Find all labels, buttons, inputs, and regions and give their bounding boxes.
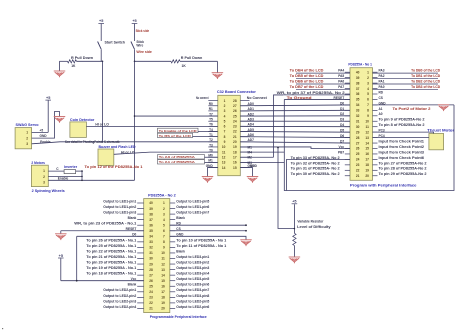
IC U1 PD8255A No 1 body: [350, 68, 373, 181]
svg-text:20: 20: [161, 307, 165, 311]
wire D0 vertical to Vcc net: [76, 236, 78, 281]
wire inverter output node: [76, 170, 83, 172]
svg-text:M1: M1: [248, 145, 253, 149]
svg-text:Wire side: Wire side: [136, 50, 152, 54]
svg-text:4: 4: [163, 218, 165, 222]
svg-text:5: 5: [224, 119, 226, 123]
svg-text:17: 17: [161, 290, 165, 294]
svg-text:Output to LED2-pin1: Output to LED2-pin1: [103, 288, 136, 292]
svg-text:To DB2 of the LCD: To DB2 of the LCD: [411, 80, 441, 84]
svg-text:Inverter: Inverter: [64, 165, 78, 169]
svg-text:To pin 19 of PD8255A - No.1: To pin 19 of PD8255A - No.1: [86, 266, 136, 270]
svg-text:GND: GND: [40, 134, 48, 138]
svg-text:13: 13: [161, 268, 165, 272]
svg-text:2: 2: [163, 207, 165, 211]
svg-text:20: 20: [233, 140, 237, 144]
labels C32 right pin names: [247, 96, 268, 168]
svg-text:38: 38: [356, 81, 360, 85]
svg-text:2: 2: [224, 104, 226, 108]
svg-text:T2: T2: [209, 138, 213, 142]
svg-text:To DB6 of the LCD: To DB6 of the LCD: [290, 80, 325, 84]
svg-text:Blank: Blank: [128, 216, 137, 220]
svg-text:21: 21: [356, 174, 360, 178]
power +5 (U2 Vcc): [58, 254, 64, 281]
ground (potentiometer): [289, 257, 301, 263]
wire +5 rail connector M1 row to U1 Vcc: [240, 147, 350, 149]
labels U2 left pin names: [74, 199, 136, 308]
power +5 (potentiometer): [292, 200, 298, 234]
net label To Enable of the LCD: [158, 128, 218, 133]
svg-text:3: 3: [224, 109, 226, 113]
pin stubs U1 right: [373, 72, 378, 176]
wire U2 CS stub: [170, 230, 247, 232]
svg-text:A0: A0: [379, 112, 383, 116]
wire connector M4 row to reset loop: [240, 151, 284, 153]
svg-text:1K: 1K: [71, 64, 76, 68]
labels U1 left red refs LCD data: [290, 69, 325, 89]
svg-text:Output to LED3-pin3: Output to LED3-pin3: [176, 266, 209, 270]
motor M1 thrust motor body: [429, 134, 444, 150]
svg-text:20: 20: [365, 174, 369, 178]
svg-text:40: 40: [149, 201, 153, 205]
resistor R1 R Pull Down 1K (left): [60, 60, 103, 63]
svg-text:To pin 21 of PD8255A - No.1: To pin 21 of PD8255A - No.1: [86, 255, 136, 259]
svg-text:23: 23: [356, 163, 360, 167]
svg-text:10: 10: [365, 119, 369, 123]
svg-text:Level of Difficulty: Level of Difficulty: [297, 225, 331, 229]
pin stubs C32 right: [240, 101, 249, 168]
svg-text:Coin Detector: Coin Detector: [70, 118, 95, 122]
svg-text:1: 1: [26, 131, 28, 135]
svg-text:T4: T4: [209, 128, 213, 132]
ground (U2 GND): [240, 240, 252, 246]
labels U1 right input check points: [379, 139, 425, 159]
svg-text:16: 16: [365, 152, 369, 156]
svg-text:To A1 of PD8255A: To A1 of PD8255A: [159, 160, 196, 164]
wire servo pin2 to ground loop: [32, 112, 60, 139]
wire +5 to U2 Vcc: [61, 280, 144, 282]
ground (C32 right): [247, 177, 259, 183]
svg-text:Output to LED1-pin5: Output to LED1-pin5: [176, 199, 209, 203]
connector J2 SWAG Servo body: [15, 128, 32, 149]
ground (U1 GND): [438, 105, 450, 112]
power +5 (servo): [45, 96, 51, 132]
svg-text:12: 12: [161, 262, 165, 266]
svg-text:To DB0 of the LCD: To DB0 of the LCD: [411, 69, 441, 73]
svg-text:To pin 11 of PD8255A - No 1: To pin 11 of PD8255A - No 1: [176, 244, 226, 248]
svg-text:19: 19: [161, 301, 165, 305]
svg-text:To pin 10 of PD8255A - No 1: To pin 10 of PD8255A - No 1: [176, 238, 226, 242]
svg-text:Start Switch: Start Switch: [105, 40, 126, 44]
ground (left pulldown): [54, 61, 66, 77]
svg-text:Programmable Peripheral Interf: Programmable Peripheral Interface: [150, 315, 207, 319]
svg-text:PA2: PA2: [379, 74, 385, 78]
svg-text:7: 7: [224, 130, 226, 134]
svg-text:22: 22: [233, 130, 237, 134]
wire U1 row17 to loop bottom: [287, 159, 350, 190]
svg-text:Blank: Blank: [176, 216, 185, 220]
svg-text:To pin 28 of PD8255A-No 2: To pin 28 of PD8255A-No 2: [379, 167, 427, 171]
svg-text:R1: R1: [209, 107, 213, 111]
net label To RS of the LCD: [158, 133, 218, 138]
svg-text:6: 6: [224, 125, 226, 129]
wire WR vertical to connector M2 row: [274, 95, 284, 157]
svg-text:2: 2: [26, 136, 28, 140]
net label To A0 of PD8255A: [158, 155, 218, 160]
svg-text:6: 6: [367, 98, 369, 102]
svg-text:To pin 18 of PD8255A - No.1: To pin 18 of PD8255A - No.1: [86, 272, 136, 276]
wire coin detector to connector pin6: [86, 125, 217, 127]
svg-text:To pin 33 of PD8255A- No 2: To pin 33 of PD8255A- No 2: [291, 156, 340, 160]
svg-text:23: 23: [233, 125, 237, 129]
svg-text:WR, to pin 23 of PD8255A - No.: WR, to pin 23 of PD8255A - No.1: [74, 222, 136, 226]
svg-text:Output to LED3-pin1: Output to LED3-pin1: [176, 255, 209, 259]
svg-text:T0: T0: [209, 148, 213, 152]
svg-text:R Pull Down: R Pull Down: [181, 56, 203, 60]
switch S2 stick/wire: [131, 39, 135, 61]
svg-text:To pin 30 of PD8255A- No 2: To pin 30 of PD8255A- No 2: [291, 172, 340, 176]
svg-text:Buzzer and Flash LED: Buzzer and Flash LED: [99, 145, 137, 149]
svg-text:25: 25: [233, 114, 237, 118]
wire U2 RESET to ground: [61, 230, 144, 232]
svg-text:R Pull Down: R Pull Down: [71, 56, 93, 60]
svg-text:Output to LED3-pin5: Output to LED3-pin5: [176, 277, 209, 281]
node junction switch2/pulldown: [134, 61, 136, 63]
svg-text:22: 22: [356, 169, 360, 173]
labels U1 left pin names PA4-PA7, D0-D7, Vcc, PB7: [334, 69, 345, 155]
svg-text:M0: M0: [208, 154, 213, 158]
svg-text:39: 39: [356, 76, 360, 80]
ground (right pulldown): [212, 61, 224, 79]
labels U1 right refs to PD8255A No 2 pins 8,9: [379, 118, 425, 127]
svg-text:To RS of the LCD: To RS of the LCD: [159, 134, 192, 138]
svg-text:27: 27: [356, 141, 360, 145]
svg-text:To pin 22 of PD8255A - No.1: To pin 22 of PD8255A - No.1: [86, 249, 136, 253]
wire C32 pin15 to ground: [240, 168, 252, 177]
svg-text:Blank: Blank: [176, 249, 185, 253]
pin numbers U1 right 1-20: [365, 70, 369, 178]
wire servo enable net to connector pin9: [32, 142, 218, 144]
svg-text:21: 21: [149, 307, 153, 311]
svg-text:7: 7: [163, 235, 165, 239]
svg-text:12: 12: [365, 130, 369, 134]
svg-text:35: 35: [149, 229, 153, 233]
IC U2 PD8255A No 2 body: [144, 199, 170, 313]
pin numbers C32 right 28-15: [233, 99, 237, 170]
svg-text:PA7: PA7: [338, 85, 344, 89]
wire switch2 vertical to motor enable net: [134, 61, 136, 180]
labels U1 right refs to PD8255A No 2 pins 27-29: [379, 161, 427, 176]
svg-text:Output to LED3-pin6: Output to LED3-pin6: [176, 283, 209, 287]
svg-text:25: 25: [149, 284, 153, 288]
label WR to pin 37 of PD8255A-No 2: [274, 91, 350, 95]
wire U2 GND to ground: [170, 236, 246, 240]
svg-text:To pin 26 of PD8255A - No.1: To pin 26 of PD8255A - No.1: [86, 238, 136, 242]
svg-text:18: 18: [365, 163, 369, 167]
svg-text:8: 8: [367, 109, 369, 113]
svg-text:4: 4: [367, 87, 369, 91]
svg-text:To pin 27 of PD8255A-No 2: To pin 27 of PD8255A-No 2: [379, 161, 427, 165]
wire C32 pin14 to ground: [208, 168, 218, 177]
labels U1 left red refs to PD8255A No 2: [291, 156, 340, 176]
svg-text:19: 19: [233, 145, 237, 149]
wire U2 RD stub: [170, 224, 247, 226]
pin numbers servo 1,2,3: [26, 131, 28, 146]
svg-text:To DB3 of the LCD: To DB3 of the LCD: [411, 85, 441, 89]
ground (servo pin2): [54, 117, 66, 123]
svg-text:33: 33: [356, 109, 360, 113]
svg-text:22: 22: [149, 301, 153, 305]
switch S1 Start Switch: [98, 39, 102, 61]
svg-text:Variable Resistor: Variable Resistor: [297, 220, 324, 224]
pin stubs C32 left: [208, 101, 218, 168]
labels C32 left pin names: [196, 96, 213, 168]
svg-text:To pin 32 of PD8255A- No 2: To pin 32 of PD8255A- No 2: [291, 161, 340, 165]
svg-text:10: 10: [222, 145, 226, 149]
svg-text:3: 3: [367, 81, 369, 85]
svg-text:14: 14: [222, 166, 226, 170]
svg-text:18: 18: [161, 296, 165, 300]
labels U1 right red refs LCD data low: [411, 69, 441, 89]
svg-text:16: 16: [161, 284, 165, 288]
node Vcc feed junction: [294, 228, 296, 230]
svg-text:30: 30: [356, 125, 360, 129]
svg-text:6: 6: [163, 229, 165, 233]
svg-text:+5: +5: [99, 19, 103, 23]
wire connector M3 row to reset loop: [240, 161, 284, 163]
svg-text:8: 8: [224, 135, 226, 139]
svg-text:36: 36: [149, 223, 153, 227]
label Variable Resistor / Level of Difficulty: [297, 220, 331, 230]
svg-text:11: 11: [161, 257, 165, 261]
svg-text:PA6: PA6: [338, 80, 344, 84]
wire motor pin2 jog: [48, 176, 82, 178]
svg-text:32: 32: [149, 246, 153, 250]
svg-text:1K: 1K: [182, 64, 187, 68]
svg-text:Output to LED3-pin8: Output to LED3-pin8: [176, 294, 209, 298]
svg-text:To DB7 of the LCD: To DB7 of the LCD: [290, 85, 325, 89]
svg-text:PA0: PA0: [379, 85, 385, 89]
svg-text:HI or LO: HI or LO: [95, 123, 109, 127]
svg-text:8: 8: [163, 240, 165, 244]
svg-text:PA3: PA3: [379, 69, 385, 73]
svg-text:3: 3: [163, 212, 165, 216]
svg-text:To Port2 of Motor 2: To Port2 of Motor 2: [393, 107, 431, 111]
svg-text:CS: CS: [379, 96, 383, 100]
node junction switch1/pulldown: [102, 61, 104, 63]
svg-text:2: 2: [367, 76, 369, 80]
svg-text:33: 33: [149, 240, 153, 244]
svg-text:18: 18: [233, 150, 237, 154]
svg-text:WR, to pin 37 of PD8255A- No 2: WR, to pin 37 of PD8255A- No 2: [277, 91, 345, 95]
svg-text:13: 13: [222, 161, 226, 165]
wire motor pin1 to inverter: [48, 170, 64, 172]
svg-text:C32 Board Connector: C32 Board Connector: [217, 90, 257, 94]
svg-text:To Enable of the LCD: To Enable of the LCD: [159, 129, 198, 133]
svg-text:Output to LED2-pin3: Output to LED2-pin3: [103, 299, 136, 303]
svg-text:29: 29: [149, 262, 153, 266]
svg-text:Input from Check Point3: Input from Check Point3: [379, 150, 425, 154]
svg-text:T5: T5: [209, 118, 213, 122]
svg-text:15: 15: [365, 147, 369, 151]
svg-text:5: 5: [367, 92, 369, 96]
svg-text:Input from Check Point1: Input from Check Point1: [379, 139, 425, 143]
svg-text:To pin 29 of PD8255A-No 2: To pin 29 of PD8255A-No 2: [379, 172, 427, 176]
svg-text:1: 1: [367, 70, 369, 74]
svg-text:35: 35: [356, 98, 360, 102]
wire U2 D0 tie: [77, 235, 144, 237]
svg-text:9: 9: [224, 140, 226, 144]
labels U1 right pin names: [379, 69, 387, 138]
wire switch2 branch to connector pin4: [134, 115, 218, 117]
pin numbers U2 right 1-20: [161, 201, 165, 310]
wire potentiometer to ground: [293, 246, 295, 258]
svg-text:29: 29: [356, 130, 360, 134]
pin stubs U1 left: [345, 72, 350, 176]
pin numbers motors 1,2,3: [43, 169, 45, 185]
resistor R2 R Pull Down 1K (right): [135, 60, 218, 63]
svg-text:Output to LED1-pin7: Output to LED1-pin7: [176, 211, 209, 215]
svg-text:Blank: Blank: [128, 283, 137, 287]
sensor coin detector body: [70, 122, 87, 137]
svg-text:To DB5 of the LCD: To DB5 of the LCD: [290, 74, 325, 78]
wire RESET ground loop rectangle: [284, 99, 454, 190]
svg-text:38: 38: [149, 212, 153, 216]
svg-text:To pin 8 of PD8255A-No 2: To pin 8 of PD8255A-No 2: [379, 123, 425, 127]
svg-text:3: 3: [26, 142, 28, 146]
svg-text:31: 31: [149, 251, 153, 255]
svg-text:1: 1: [43, 169, 45, 173]
svg-text:28: 28: [149, 268, 153, 272]
pin numbers U1 left 40-21: [356, 70, 360, 178]
svg-text:24: 24: [356, 158, 360, 162]
svg-text:28: 28: [233, 99, 237, 103]
svg-text:Program with Peripheral Interf: Program with Peripheral Interface: [350, 183, 417, 188]
svg-text:To pin 20 of PD8255A - No.1: To pin 20 of PD8255A - No.1: [86, 260, 136, 264]
svg-text:Output to LED2-pin6: Output to LED2-pin6: [176, 305, 209, 309]
svg-text:See detail in PivotingPoints S: See detail in PivotingPoints S-chem.stk: [65, 140, 120, 144]
svg-text:11: 11: [222, 150, 226, 154]
svg-text:14: 14: [161, 273, 165, 277]
power +5 (start switch): [98, 19, 104, 39]
inverter U3 body: [64, 170, 76, 174]
svg-text:2: 2: [43, 175, 45, 179]
wire +5 rail down to potentiometer: [277, 147, 294, 229]
corner mark: [2, 328, 3, 329]
svg-text:19: 19: [365, 169, 369, 173]
svg-text:Output to LED2-pin4: Output to LED2-pin4: [103, 305, 136, 309]
svg-text:PD8255A - No 1: PD8255A - No 1: [348, 62, 372, 66]
resistor R3 variable level of difficulty: [293, 233, 296, 245]
svg-text:Output to LED1-pin6: Output to LED1-pin6: [176, 205, 209, 209]
svg-text:11: 11: [366, 125, 370, 129]
svg-text:R0: R0: [209, 102, 213, 106]
wire U1 RESET row to ground loop: [284, 98, 350, 100]
svg-text:PD8255A - No 2: PD8255A - No 2: [148, 194, 176, 198]
svg-text:Wire: Wire: [136, 44, 143, 48]
svg-text:39: 39: [149, 207, 153, 211]
svg-text:Output to LED2-pin2: Output to LED2-pin2: [103, 294, 136, 298]
svg-text:To DB1 of the LCD: To DB1 of the LCD: [411, 74, 441, 78]
svg-text:Stick side: Stick side: [136, 29, 150, 33]
svg-text:To pin 25 of PD8255A - No.1: To pin 25 of PD8255A - No.1: [86, 244, 136, 248]
svg-text:T6: T6: [209, 123, 213, 127]
pin numbers C32 left 1-14: [222, 99, 226, 170]
svg-text:To pin 31 of PD8255A- No 2: To pin 31 of PD8255A- No 2: [291, 167, 340, 171]
svg-text:4: 4: [224, 114, 226, 118]
svg-text:Output to LED3-pin7: Output to LED3-pin7: [176, 288, 209, 292]
wire connector M2 row: [240, 156, 273, 158]
wire buzzer to connector pin11: [114, 152, 218, 154]
svg-text:13: 13: [365, 136, 369, 140]
svg-text:14: 14: [365, 141, 369, 145]
connector J3 2 Motors body: [31, 165, 48, 186]
svg-text:PA4: PA4: [338, 69, 344, 73]
svg-text:Output to LED3-pin4: Output to LED3-pin4: [176, 272, 209, 276]
ground (C32 left): [202, 177, 214, 183]
svg-text:1: 1: [224, 99, 226, 103]
svg-text:26: 26: [233, 109, 237, 113]
svg-text:32: 32: [356, 114, 360, 118]
svg-text:17: 17: [365, 158, 369, 162]
connector J1 C32 body: [218, 95, 241, 175]
svg-text:3: 3: [43, 181, 45, 185]
buzzer and flash LED body: [98, 149, 114, 166]
svg-text:RD: RD: [379, 90, 384, 94]
svg-text:25: 25: [356, 152, 360, 156]
svg-text:9: 9: [367, 114, 369, 118]
svg-text:+5: +5: [132, 19, 136, 23]
svg-text:To pin 9 of PD8255A-No 2: To pin 9 of PD8255A-No 2: [379, 118, 425, 122]
wire PC3 to thrust motor: [373, 132, 434, 133]
svg-text:17: 17: [233, 155, 237, 159]
svg-text:PB7: PB7: [338, 150, 344, 154]
svg-text:M1: M1: [208, 159, 213, 163]
labels U2 right pin names: [176, 199, 226, 308]
svg-text:24: 24: [233, 119, 237, 123]
svg-text:10: 10: [161, 251, 165, 255]
svg-text:To DB4 of the LCD: To DB4 of the LCD: [290, 69, 325, 73]
svg-text:1: 1: [163, 201, 165, 205]
svg-text:24: 24: [149, 290, 153, 294]
pin stubs U2 right: [170, 203, 175, 308]
svg-text:12: 12: [222, 155, 226, 159]
svg-text:+5: +5: [46, 96, 50, 100]
wire PC4 to thrust motor: [373, 137, 429, 139]
svg-text:To pin 12 of the PD8255A-No 1: To pin 12 of the PD8255A-No 1: [85, 165, 143, 169]
svg-text:+5: +5: [292, 200, 296, 204]
svg-text:15: 15: [161, 279, 165, 283]
svg-text:Output to LED1-pin1: Output to LED1-pin1: [103, 199, 136, 203]
svg-text:36: 36: [356, 92, 360, 96]
wire inverter node down to enable net: [81, 171, 83, 180]
svg-text:Output to LED1-pin2: Output to LED1-pin2: [103, 205, 136, 209]
svg-text:+5: +5: [59, 254, 63, 258]
svg-text:To A0 of PD8255A: To A0 of PD8255A: [159, 155, 196, 159]
svg-text:16: 16: [233, 161, 237, 165]
wire motor enable net: [48, 180, 134, 182]
svg-text:27: 27: [149, 273, 153, 277]
svg-text:T3: T3: [209, 143, 213, 147]
wire U1 GND to ground: [373, 104, 455, 106]
svg-text:37: 37: [356, 87, 360, 91]
svg-text:5: 5: [163, 223, 165, 227]
svg-text:No Connect: No Connect: [247, 96, 268, 100]
svg-text:34: 34: [356, 103, 360, 107]
svg-text:2 Spinning Wheels: 2 Spinning Wheels: [32, 189, 65, 193]
wire switch1 to servo enable net: [102, 61, 104, 142]
svg-text:23: 23: [149, 296, 153, 300]
